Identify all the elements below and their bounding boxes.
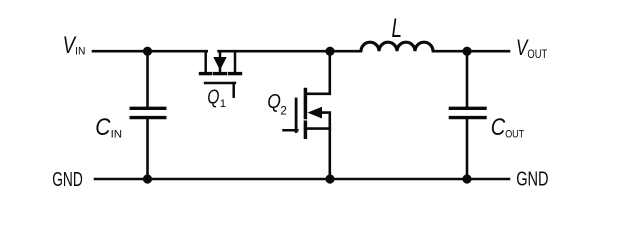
node: input junction bottom (143, 174, 152, 183)
wire bottom ground rail (95, 178, 509, 181)
label Q2 (267, 91, 287, 117)
wire C_OUT top (466, 51, 469, 106)
wire V_IN rail (93, 50, 207, 53)
node: input junction top (143, 47, 152, 56)
svg-text:L: L (392, 13, 403, 43)
svg-text:IN: IN (75, 46, 85, 58)
svg-text:GND: GND (516, 168, 548, 191)
svg-text:OUT: OUT (505, 129, 524, 141)
capacitor C_IN plates (130, 108, 167, 117)
transistor Q2 (low-side MOSFET) (284, 90, 323, 138)
label C_IN (95, 114, 122, 141)
wire C_OUT bottom (466, 119, 469, 179)
wire Q2 body tie (320, 113, 330, 129)
svg-text:C: C (95, 114, 111, 141)
svg-text:GND: GND (52, 168, 83, 191)
node: output junction bottom (462, 174, 471, 183)
node: switch node junction (325, 47, 334, 56)
svg-text:IN: IN (111, 129, 123, 141)
capacitor C_OUT plates (449, 108, 487, 117)
wire switch-node rail (219, 50, 361, 53)
transistor Q1 (high-side MOSFET) (201, 51, 241, 96)
svg-text:OUT: OUT (527, 48, 547, 61)
svg-text:Q: Q (267, 91, 281, 113)
label C_OUT (491, 114, 524, 141)
wire inductor output rail (433, 50, 509, 53)
node: switch junction bottom (325, 174, 334, 183)
svg-text:2: 2 (280, 104, 287, 117)
svg-text:1: 1 (220, 98, 226, 110)
label V_OUT (516, 35, 547, 61)
label Q1 (207, 86, 226, 110)
wire C_IN bottom (146, 119, 149, 179)
node: output junction top (462, 47, 471, 56)
wire Q2 drain (306, 51, 330, 94)
svg-text:Q: Q (207, 86, 219, 108)
inductor L (361, 42, 433, 51)
wire Q2 source to ground (306, 129, 330, 179)
wire C_IN top (146, 51, 149, 106)
svg-text:C: C (491, 114, 506, 141)
label V_IN (63, 32, 86, 59)
